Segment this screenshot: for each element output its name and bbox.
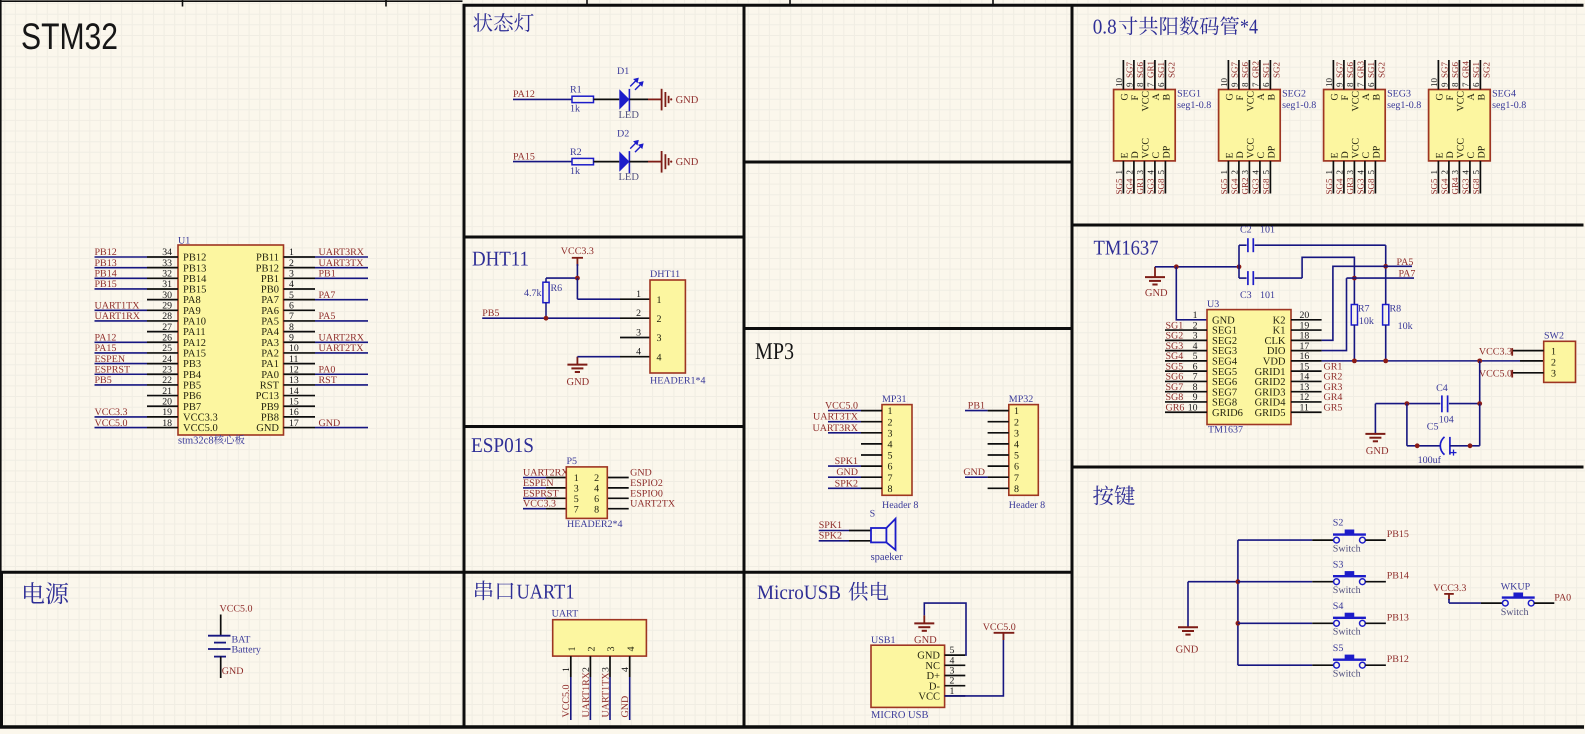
svg-text:9: 9 xyxy=(1125,82,1135,87)
svg-text:1: 1 xyxy=(567,647,578,652)
svg-text:D: D xyxy=(1130,151,1141,158)
svg-text:VCC: VCC xyxy=(1456,138,1467,159)
wire net PB14 to U1 pin 32 xyxy=(95,277,148,279)
svg-text:WKUP: WKUP xyxy=(1501,582,1531,593)
svg-text:UART3TX: UART3TX xyxy=(813,412,859,423)
UART pin 3 stub xyxy=(609,656,611,677)
DHT11 pin4 stub xyxy=(620,356,650,358)
svg-text:16: 16 xyxy=(289,407,299,418)
S3 left lead xyxy=(1312,581,1333,583)
svg-text:1: 1 xyxy=(1219,170,1229,175)
svg-text:UART3RX: UART3RX xyxy=(812,423,858,434)
ESP pin stub left 7 xyxy=(546,508,566,510)
svg-text:SG4: SG4 xyxy=(1335,178,1345,195)
svg-text:UART2TX: UART2TX xyxy=(319,343,365,354)
svg-text:GND: GND xyxy=(630,468,652,479)
header P5 body xyxy=(566,467,607,519)
U1 right pin 5 stub wire xyxy=(284,299,316,301)
svg-text:SG8: SG8 xyxy=(1156,178,1166,195)
SEG3 bottom pin wire 4 xyxy=(1364,161,1366,194)
USB1 pin 3 stub xyxy=(945,675,966,677)
sheet zone ticks xyxy=(183,0,994,7)
wire gnd lead xyxy=(648,161,662,163)
wire net VCC5.0 to MP31 xyxy=(828,410,861,412)
svg-text:8: 8 xyxy=(1135,82,1145,87)
svg-text:R1: R1 xyxy=(570,85,582,96)
svg-text:ESPEN: ESPEN xyxy=(523,478,554,489)
svg-text:10k: 10k xyxy=(1359,316,1374,327)
svg-text:UART: UART xyxy=(552,609,579,620)
svg-text:ESPRST: ESPRST xyxy=(523,488,559,499)
svg-text:12: 12 xyxy=(289,364,299,375)
svg-text:101: 101 xyxy=(1260,290,1275,301)
capacitor C2 xyxy=(1239,244,1247,246)
wire GND rail xyxy=(1155,266,1239,268)
svg-text:PB14: PB14 xyxy=(1387,571,1409,582)
svg-text:GND: GND xyxy=(676,95,699,106)
svg-text:SG8: SG8 xyxy=(1261,178,1271,195)
svg-text:GND: GND xyxy=(567,377,590,388)
svg-text:PB5: PB5 xyxy=(183,381,201,392)
U1 left pin 21 stub wire xyxy=(147,395,178,397)
svg-text:C3: C3 xyxy=(1240,290,1252,301)
svg-text:UART2RX: UART2RX xyxy=(319,332,365,343)
wire net ESPEN xyxy=(523,487,546,489)
title zhuangtaideng (status LEDs) xyxy=(473,13,533,32)
svg-text:20: 20 xyxy=(162,396,172,407)
svg-text:4: 4 xyxy=(636,347,641,358)
svg-text:25: 25 xyxy=(162,343,172,354)
earth ground TM1637 left xyxy=(1154,267,1156,277)
S5 right lead xyxy=(1365,664,1386,666)
wire to DHT11 pin1 xyxy=(577,298,620,300)
U3 left pin 7 stub xyxy=(1165,380,1207,382)
svg-text:2: 2 xyxy=(1551,358,1556,369)
svg-text:11: 11 xyxy=(1300,402,1310,413)
svg-text:C: C xyxy=(1361,152,1372,159)
svg-text:S5: S5 xyxy=(1333,643,1344,654)
svg-text:100uf: 100uf xyxy=(1418,455,1442,466)
wire junction down xyxy=(576,278,578,299)
capacitor C5 polarized xyxy=(1440,437,1444,455)
svg-text:3: 3 xyxy=(574,484,579,495)
U1 right pin 13 stub wire xyxy=(284,384,316,386)
svg-text:1: 1 xyxy=(636,289,641,300)
DHT11 pin2 stub xyxy=(620,317,650,319)
wire GND drop keys xyxy=(1187,582,1189,628)
svg-text:PA0: PA0 xyxy=(261,370,279,381)
U1 left pin 24 stub wire xyxy=(147,363,178,365)
svg-text:5: 5 xyxy=(1471,170,1481,175)
U3 right pin 16 stub xyxy=(1291,360,1322,362)
sheet left thin border xyxy=(0,0,2,571)
svg-text:1: 1 xyxy=(561,667,572,672)
SEG2 bottom pin wire 1 xyxy=(1227,161,1229,194)
svg-text:U1: U1 xyxy=(178,236,190,247)
svg-text:DP: DP xyxy=(1477,145,1488,158)
svg-text:seg1-0.8: seg1-0.8 xyxy=(1177,100,1211,111)
SEG1 top pin wire 7 xyxy=(1154,60,1156,90)
svg-text:ESP01S: ESP01S xyxy=(471,433,534,457)
U3 right pin 15 stub xyxy=(1291,370,1322,372)
svg-text:R2: R2 xyxy=(570,147,582,158)
wire bus to S3 xyxy=(1238,581,1312,583)
svg-text:1: 1 xyxy=(574,473,579,484)
svg-text:8: 8 xyxy=(1450,82,1460,87)
wire C4 row left xyxy=(1375,403,1440,405)
R6 top lead xyxy=(545,278,547,282)
U1 right pin 16 stub wire xyxy=(284,416,316,418)
svg-text:DP: DP xyxy=(1162,145,1173,158)
title chuankou UART1 xyxy=(475,581,513,601)
svg-text:VCC: VCC xyxy=(1456,91,1467,112)
header MP32 body xyxy=(1009,405,1039,496)
U3 left pin 3 stub xyxy=(1165,339,1207,341)
wire C5 row left xyxy=(1407,445,1440,447)
svg-text:3: 3 xyxy=(289,269,294,280)
svg-text:4: 4 xyxy=(626,647,637,652)
wire C5 right xyxy=(1450,445,1480,447)
MP31 pin 3 stub xyxy=(861,432,882,434)
U1 left pin 30 stub wire xyxy=(147,299,178,301)
svg-text:seg1-0.8: seg1-0.8 xyxy=(1387,100,1421,111)
svg-text:UART1TX: UART1TX xyxy=(95,301,141,312)
svg-text:SG4: SG4 xyxy=(1440,178,1450,195)
wire SPK2 to speaker xyxy=(819,540,849,542)
U3 left pin 10 stub xyxy=(1165,411,1207,413)
resistor R2 xyxy=(572,158,594,164)
U3 left pin 4 stub xyxy=(1165,350,1207,352)
svg-text:DP: DP xyxy=(1372,145,1383,158)
switch S4 xyxy=(1334,620,1340,626)
speaker pin2 stub xyxy=(849,540,871,542)
ESP pin stub right 4 xyxy=(607,487,628,489)
svg-text:VCC: VCC xyxy=(1246,138,1257,159)
USB1 pin 5 stub xyxy=(945,654,966,656)
svg-text:22: 22 xyxy=(162,375,172,386)
svg-text:30: 30 xyxy=(162,290,172,301)
svg-text:3: 3 xyxy=(657,333,662,344)
svg-text:D1: D1 xyxy=(617,66,629,77)
wire PA15 to R2 xyxy=(513,161,572,163)
svg-text:SEG4: SEG4 xyxy=(1492,89,1516,100)
svg-text:4: 4 xyxy=(594,484,599,495)
svg-text:GND: GND xyxy=(222,666,244,677)
svg-text:PB3: PB3 xyxy=(183,359,201,370)
ESP pin stub left 1 xyxy=(546,477,566,479)
svg-text:1: 1 xyxy=(888,406,893,417)
svg-text:S2: S2 xyxy=(1333,518,1344,529)
svg-text:D: D xyxy=(1235,151,1246,158)
speaker S body xyxy=(871,528,886,542)
svg-text:VCC3.3: VCC3.3 xyxy=(95,407,128,418)
svg-text:PA12: PA12 xyxy=(95,332,117,343)
svg-text:17: 17 xyxy=(289,418,299,429)
S2 left lead xyxy=(1312,539,1333,541)
svg-text:MP32: MP32 xyxy=(1009,394,1033,405)
U1 right pin 2 stub wire xyxy=(284,267,316,269)
DHT11 pin3 stub xyxy=(620,337,650,339)
svg-text:3: 3 xyxy=(1135,170,1145,175)
MP32 pin 2 stub xyxy=(988,421,1009,423)
wire GND branch xyxy=(1188,581,1238,583)
svg-text:GND: GND xyxy=(620,696,631,718)
svg-text:VCC: VCC xyxy=(1141,138,1152,159)
svg-text:GND: GND xyxy=(963,467,985,478)
ESP pin stub left 3 xyxy=(546,487,566,489)
U1 right pin 3 stub wire xyxy=(284,277,316,279)
wire net UART1RX vertical xyxy=(589,677,591,720)
wire net SPK1 to MP31 xyxy=(828,465,861,467)
svg-text:5: 5 xyxy=(1156,170,1166,175)
svg-text:PA0: PA0 xyxy=(1554,592,1571,603)
wire earth lead xyxy=(923,615,925,623)
svg-text:E: E xyxy=(1120,152,1131,158)
svg-text:HEADER1*4: HEADER1*4 xyxy=(650,376,706,387)
switch SW2 body xyxy=(1544,341,1576,382)
svg-text:10: 10 xyxy=(1188,402,1198,413)
U3 right pin 19 stub xyxy=(1291,329,1322,331)
svg-text:C4: C4 xyxy=(1436,383,1448,394)
earth ground DHT11 xyxy=(576,357,578,365)
svg-text:6: 6 xyxy=(1014,462,1019,473)
wire net PB1 to MP32 xyxy=(965,410,988,412)
svg-text:E: E xyxy=(1435,152,1446,158)
svg-text:SG2: SG2 xyxy=(1482,62,1492,78)
LED D1 xyxy=(619,89,629,109)
svg-text:GR3: GR3 xyxy=(1345,177,1355,195)
svg-text:10k: 10k xyxy=(1398,321,1413,332)
wire net SPK2 to MP31 xyxy=(828,487,861,489)
svg-text:11: 11 xyxy=(289,354,299,365)
svg-text:3: 3 xyxy=(1014,428,1019,439)
display SEG1 body xyxy=(1114,90,1176,161)
svg-text:7: 7 xyxy=(1146,82,1156,87)
U1 left pin 29 stub wire xyxy=(147,309,178,311)
title dianyuan (power) xyxy=(24,582,68,604)
svg-text:4: 4 xyxy=(620,667,631,672)
svg-text:GND: GND xyxy=(319,418,341,429)
ESP pin stub right 6 xyxy=(607,497,628,499)
svg-text:stm32c8: stm32c8 xyxy=(178,436,214,447)
SEG3 bottom pin wire 3 xyxy=(1353,161,1355,194)
battery BAT plates xyxy=(208,636,231,657)
svg-text:4: 4 xyxy=(1356,170,1366,175)
wire PA5 rail xyxy=(1386,265,1412,267)
earth ground keys xyxy=(1178,627,1198,634)
svg-text:E: E xyxy=(1225,152,1236,158)
SW2 pin1 stub xyxy=(1513,350,1544,352)
svg-text:101: 101 xyxy=(1260,225,1275,236)
svg-text:DHT11: DHT11 xyxy=(472,247,529,271)
svg-text:5: 5 xyxy=(1366,170,1376,175)
svg-text:SG5: SG5 xyxy=(1114,178,1124,195)
svg-text:34: 34 xyxy=(162,247,172,258)
SEG2 bottom pin wire 5 xyxy=(1269,161,1271,194)
svg-text:1: 1 xyxy=(1114,170,1124,175)
svg-text:31: 31 xyxy=(162,279,172,290)
svg-text:ESPIO0: ESPIO0 xyxy=(630,488,663,499)
svg-text:C5: C5 xyxy=(1427,421,1439,432)
svg-text:PA5: PA5 xyxy=(261,317,279,328)
svg-text:5: 5 xyxy=(1261,170,1271,175)
svg-text:SG5: SG5 xyxy=(1429,178,1439,195)
U1 chip body xyxy=(178,245,284,435)
svg-text:C: C xyxy=(1466,152,1477,159)
svg-text:UART1: UART1 xyxy=(517,580,575,604)
wire C4 right drop xyxy=(1479,404,1481,446)
svg-text:UART1RX: UART1RX xyxy=(95,311,141,322)
U1 left pin 20 stub wire xyxy=(147,405,178,407)
wire net UART1RX to U1 pin 28 xyxy=(95,320,148,322)
svg-text:2: 2 xyxy=(657,314,662,325)
resistor R1 xyxy=(572,96,594,102)
wire net PB13 to U1 pin 33 xyxy=(95,267,148,269)
U1 right pin 11 stub wire xyxy=(284,363,316,365)
svg-text:PA11: PA11 xyxy=(183,327,206,338)
svg-text:UART3RX: UART3RX xyxy=(319,247,365,258)
svg-text:Switch: Switch xyxy=(1501,607,1529,618)
svg-text:PC13: PC13 xyxy=(256,391,279,402)
wire DIO route xyxy=(1322,278,1347,351)
IC U3 body xyxy=(1207,310,1291,425)
R6 bottom lead xyxy=(545,303,547,319)
svg-text:PB15: PB15 xyxy=(183,285,206,296)
LED D2 xyxy=(619,151,629,171)
U1 right pin 1 stub wire xyxy=(284,256,316,258)
wire R6 top xyxy=(546,277,577,279)
svg-text:2: 2 xyxy=(1335,170,1345,175)
svg-text:SG3: SG3 xyxy=(1461,178,1471,195)
svg-text:7: 7 xyxy=(1251,82,1261,87)
svg-text:VCC5.0: VCC5.0 xyxy=(825,401,858,412)
wire PA12 to R1 xyxy=(513,98,572,100)
MP31 pin 2 stub xyxy=(861,421,882,423)
wire bus to S5 xyxy=(1238,664,1312,666)
svg-text:SG5: SG5 xyxy=(1219,178,1229,195)
svg-text:7: 7 xyxy=(1356,82,1366,87)
svg-text:C: C xyxy=(1151,152,1162,159)
svg-text:ESPEN: ESPEN xyxy=(95,354,126,365)
DHT11 pin1 stub xyxy=(620,298,650,300)
wire gnd lead xyxy=(648,98,662,100)
svg-text:SG2: SG2 xyxy=(1272,62,1282,78)
svg-text:PA15: PA15 xyxy=(183,349,206,360)
SEG4 top pin wire 9 xyxy=(1448,60,1450,90)
svg-text:18: 18 xyxy=(162,418,172,429)
wire net UART1TX to U1 pin 29 xyxy=(95,309,148,311)
svg-text:STM32: STM32 xyxy=(21,16,118,57)
wire key bus vertical xyxy=(1237,540,1239,665)
junction VCC3.3/R6/pin1 xyxy=(575,276,580,281)
SEG4 bottom pin wire 1 xyxy=(1437,161,1439,194)
svg-text:26: 26 xyxy=(162,332,172,343)
MP31 pin 6 stub xyxy=(861,465,882,467)
svg-text:Battery: Battery xyxy=(232,644,261,655)
svg-text:Header 8: Header 8 xyxy=(1009,500,1045,511)
resistor R8 xyxy=(1383,305,1389,326)
wire U1 pin 9 to net UART2RX xyxy=(315,341,368,343)
SEG1 top pin wire 9 xyxy=(1133,60,1135,90)
wire D2 to GND xyxy=(630,161,649,163)
svg-text:MP31: MP31 xyxy=(882,394,906,405)
wire net ESPRST xyxy=(523,497,546,499)
svg-text:PB14: PB14 xyxy=(95,269,117,280)
MP32 pin 8 stub xyxy=(988,487,1009,489)
svg-text:23: 23 xyxy=(162,364,172,375)
svg-text:PB13: PB13 xyxy=(183,263,206,274)
wire PA7 rail xyxy=(1347,277,1415,279)
svg-text:R8: R8 xyxy=(1390,303,1402,314)
svg-text:LED: LED xyxy=(619,172,640,183)
svg-text:PA7: PA7 xyxy=(1399,268,1416,279)
junction C4 drop xyxy=(1477,358,1482,363)
svg-text:PA5: PA5 xyxy=(1397,257,1414,268)
svg-text:SG8: SG8 xyxy=(1366,178,1376,195)
svg-text:VCC: VCC xyxy=(1246,91,1257,112)
U3 right pin 14 stub xyxy=(1291,380,1322,382)
svg-text:4: 4 xyxy=(1014,440,1019,451)
svg-text:2: 2 xyxy=(289,258,294,269)
S2 right lead xyxy=(1365,539,1386,541)
wire VDD down to C4 xyxy=(1479,361,1481,404)
SW2 pin2 stub xyxy=(1520,360,1544,362)
wire C2 corner to R8 xyxy=(1385,245,1387,304)
svg-text:7: 7 xyxy=(888,473,893,484)
wire net GND to MP31 xyxy=(828,476,861,478)
svg-text:SG8: SG8 xyxy=(1471,178,1481,195)
svg-text:VCC5.0: VCC5.0 xyxy=(561,684,572,717)
wire net VCC3.3 xyxy=(523,508,546,510)
junction R7 PA7 xyxy=(1352,276,1357,281)
U1 left pin 27 stub wire xyxy=(147,331,178,333)
svg-text:8: 8 xyxy=(1345,82,1355,87)
svg-text:3: 3 xyxy=(636,327,641,338)
wire U1 pin 12 to net PA0 xyxy=(315,373,368,375)
svg-text:GND: GND xyxy=(1176,645,1199,656)
svg-text:ESPRST: ESPRST xyxy=(95,364,131,375)
U1 left pin 32 stub wire xyxy=(147,277,178,279)
wire net UART3RX to MP31 xyxy=(828,432,861,434)
svg-text:PB13: PB13 xyxy=(95,258,117,269)
svg-text:GR1: GR1 xyxy=(1135,177,1145,194)
U3 right pin 20 stub xyxy=(1291,319,1322,321)
MP31 pin 4 stub xyxy=(861,443,882,445)
svg-text:G: G xyxy=(1330,93,1341,100)
svg-text:PB8: PB8 xyxy=(261,413,279,424)
svg-text:GR4: GR4 xyxy=(1450,177,1460,195)
SEG3 bottom pin wire 2 xyxy=(1343,161,1345,194)
SEG1 top pin wire 8 xyxy=(1143,60,1145,90)
svg-text:TM1637: TM1637 xyxy=(1208,424,1243,435)
power ground symbol xyxy=(662,89,669,111)
svg-text:PA3: PA3 xyxy=(261,338,279,349)
svg-text:0.8: 0.8 xyxy=(1093,15,1117,39)
svg-text:PA0: PA0 xyxy=(319,364,336,375)
wire R1 to D1 xyxy=(594,98,620,100)
R8 lead bottom xyxy=(1385,325,1387,361)
U3 left pin 8 stub xyxy=(1165,391,1207,393)
svg-text:VCC5.0: VCC5.0 xyxy=(95,418,128,429)
svg-text:UART1RX: UART1RX xyxy=(581,671,592,717)
ESP pin stub right 8 xyxy=(607,508,628,510)
wire D1 to GND xyxy=(630,98,649,100)
svg-text:GND: GND xyxy=(1145,288,1168,299)
svg-text:4: 4 xyxy=(1146,170,1156,175)
svg-text:PA2: PA2 xyxy=(261,349,279,360)
svg-text:B: B xyxy=(1162,94,1173,101)
svg-text:VCC3.3: VCC3.3 xyxy=(561,246,594,257)
